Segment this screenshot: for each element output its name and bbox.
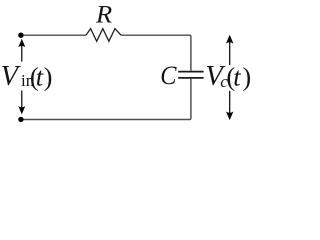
svg-text:C: C [160,61,177,90]
capacitor C bottom plate [178,77,203,79]
node dot bottom-left [18,117,23,122]
svg-text:): ) [242,61,251,91]
wire: top-left node to resistor [21,34,86,36]
arrow down for Vc polarity [226,91,233,120]
wire: capacitor bottom plate to bottom-right corner, back to bottom-left node [21,79,191,120]
node dot top-left [18,33,23,38]
svg-text:R: R [95,1,112,28]
capacitor C top plate [178,71,203,73]
label Vin(t) [1,61,53,92]
resistor R zigzag [86,29,121,42]
svg-text:t: t [233,61,241,91]
svg-text:t: t [36,61,44,91]
svg-text:V: V [1,61,22,92]
wire: resistor to top-right corner, down to capacitor top plate [121,35,191,71]
label Vc(t) [205,61,251,92]
arrow up for Vc polarity [226,35,233,65]
arrow up toward top-left node [18,39,25,62]
arrow down toward bottom-left node [18,91,25,115]
svg-text:): ) [44,61,53,91]
